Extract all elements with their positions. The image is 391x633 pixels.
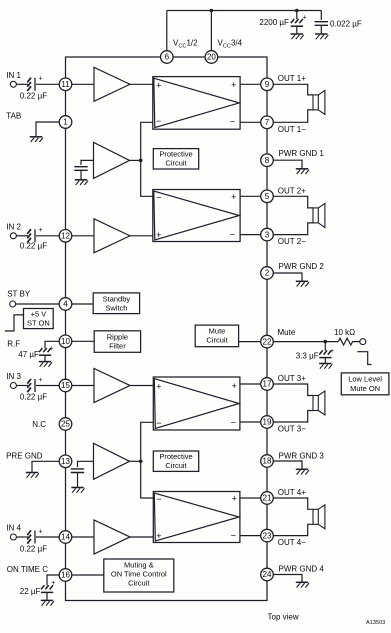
pin 8: [261, 154, 274, 167]
svg-text:25: 25: [61, 420, 70, 429]
capacitor 0.22 uF (IN 2 coupling): [20, 227, 47, 250]
pin 22: [261, 335, 274, 348]
pin 15: [59, 379, 72, 392]
svg-text:9: 9: [265, 80, 270, 89]
wire PA3 -out to pin 19: [240, 421, 261, 423]
wire IN3 terminal to coupling cap: [16, 385, 28, 387]
svg-text:+: +: [39, 227, 43, 234]
pin 5: [261, 190, 274, 203]
mute step waveform symbol: [357, 352, 371, 365]
wire pin 4 to standby switch: [72, 303, 93, 305]
capacitor 2200 uF (supply electrolytic): [259, 11, 306, 34]
svg-text:OUT 1+: OUT 1+: [278, 74, 306, 83]
node ST BY terminal: [10, 301, 16, 307]
wire PA1 +out to pin 9: [240, 83, 261, 85]
capacitor 0.22 uF (IN 4 coupling): [20, 528, 47, 553]
svg-text:PWR GND 4: PWR GND 4: [279, 565, 325, 574]
pin 7: [261, 116, 274, 129]
wire pin 8 to ground: [273, 160, 302, 168]
pin 6: [161, 51, 174, 64]
svg-text:20: 20: [207, 53, 216, 62]
ground (TAB): [30, 137, 43, 142]
svg-text:N.C: N.C: [32, 420, 46, 429]
wire A4 output to PA3 (+): [130, 385, 153, 387]
wire pin 13 to ground: [32, 461, 59, 472]
svg-text:1: 1: [63, 118, 68, 127]
wire pin 1 (TAB) to ground: [36, 122, 59, 137]
pin 18: [261, 455, 274, 468]
pin 16: [59, 569, 72, 582]
pin 20: [205, 51, 218, 64]
wire riser pin 20 to Vcc rail: [210, 11, 212, 51]
svg-text:Circuit: Circuit: [206, 335, 228, 344]
svg-text:22 µF: 22 µF: [20, 587, 41, 596]
pin 10: [59, 335, 72, 348]
svg-text:OUT 2+: OUT 2+: [278, 186, 306, 195]
svg-text:PRE GND: PRE GND: [6, 452, 43, 461]
wire coupling cap to pin 14: [36, 536, 59, 538]
svg-text:OUT 3+: OUT 3+: [278, 374, 306, 383]
wire A1 output to bridge PA1 (+): [130, 83, 153, 85]
svg-text:IN 4: IN 4: [6, 524, 21, 533]
wire pin 23 to speaker 4 bottom: [273, 524, 313, 535]
standby step waveform symbol: [5, 315, 24, 331]
svg-text:Top view: Top view: [268, 613, 299, 622]
ground (2200uF): [291, 34, 304, 39]
pin 1: [59, 116, 72, 129]
ground (PWR GND 1): [296, 169, 309, 174]
svg-text:OUT 4−: OUT 4−: [278, 538, 306, 547]
capacitor 22 uF (on-time): [20, 580, 56, 600]
ground (PWR GND 3): [296, 469, 309, 474]
pin 19: [261, 416, 274, 429]
pin 9: [261, 78, 274, 91]
svg-text:OUT 3−: OUT 3−: [278, 425, 306, 434]
svg-text:PWR GND 2: PWR GND 2: [279, 262, 325, 271]
wire pin 24 to ground: [273, 575, 302, 583]
svg-text:OUT 4+: OUT 4+: [278, 488, 306, 497]
wire pin 14 to A6: [72, 536, 94, 538]
svg-text:ON TIME C: ON TIME C: [7, 565, 48, 574]
svg-text:+: +: [39, 377, 43, 384]
node IN 1 input terminal: [10, 81, 16, 87]
svg-text:−: −: [156, 192, 161, 202]
ripple filter block: [94, 331, 140, 353]
svg-text:3.3 µF: 3.3 µF: [296, 352, 319, 361]
ground (A5 cap): [71, 488, 84, 493]
ground (3.3uF): [319, 364, 332, 369]
pin 11: [59, 78, 72, 91]
wire pin 10 to ripple filter cap: [45, 341, 59, 348]
svg-text:Mute: Mute: [209, 327, 226, 336]
wire A3 output to PA2 (+): [130, 235, 153, 237]
svg-text:+: +: [156, 80, 161, 90]
pin 21: [261, 492, 274, 505]
svg-text:Circuit: Circuit: [165, 461, 187, 470]
junction: A2 output on bus: [139, 159, 143, 163]
svg-text:Low Level: Low Level: [348, 375, 382, 384]
wire coupling cap to pin 11: [36, 83, 59, 85]
wire pin 11 to A1: [72, 83, 94, 85]
wire pin 21 to speaker 4 top: [273, 498, 313, 509]
wire pin 3 to speaker 2 bottom: [273, 223, 313, 235]
svg-text:2: 2: [265, 269, 270, 278]
node mute control terminal: [360, 339, 366, 345]
svg-text:22: 22: [263, 337, 272, 346]
op-amp A2 (half-supply driver ch1/2): [94, 142, 130, 178]
resistor 10 kOhm: [334, 328, 360, 345]
wire pin 16 to muting block: [72, 574, 104, 576]
wire IN2 terminal to coupling cap: [16, 235, 28, 237]
pin 3: [261, 228, 274, 241]
wire PA4 -out to pin 23: [240, 535, 261, 537]
svg-text:10: 10: [61, 337, 70, 346]
protective circuit block (ch3/4): [153, 451, 198, 471]
capacitor 0.22 uF (IN 1 coupling): [20, 76, 47, 101]
power amp bridge PA2 (channel 2): [153, 190, 240, 242]
svg-text:TAB: TAB: [6, 112, 21, 121]
svg-text:0.22 µF: 0.22 µF: [20, 92, 47, 101]
capacitor 3.3 uF (mute): [296, 342, 334, 364]
svg-text:ON Time Control: ON Time Control: [111, 569, 167, 578]
svg-text:0.22 µF: 0.22 µF: [20, 242, 47, 251]
wire pin 19 to speaker 3 bottom: [273, 411, 313, 423]
svg-text:47 µF: 47 µF: [18, 350, 39, 359]
svg-text:21: 21: [263, 494, 272, 503]
svg-text:18: 18: [263, 457, 272, 466]
pin 13: [59, 455, 72, 468]
svg-text:−: −: [231, 531, 236, 541]
svg-text:−: −: [156, 418, 161, 428]
svg-text:Filter: Filter: [109, 341, 126, 350]
wire bus: PA3/PA4 (-) input feed: [141, 422, 154, 498]
svg-text:10 kΩ: 10 kΩ: [334, 328, 355, 337]
svg-text:Ripple: Ripple: [107, 332, 128, 341]
ground (47uF): [39, 362, 52, 367]
wire riser pin 6 to Vcc rail: [166, 11, 168, 51]
svg-text:17: 17: [263, 380, 272, 389]
svg-text:+: +: [231, 192, 236, 202]
svg-text:16: 16: [61, 571, 70, 580]
wire pin 2 to ground: [273, 273, 302, 281]
svg-text:11: 11: [61, 80, 70, 89]
wire IN1 terminal to coupling cap: [16, 83, 28, 85]
ground (PWR GND 2): [296, 281, 309, 286]
svg-text:−: −: [230, 117, 235, 127]
power amp bridge PA3 (channel 3): [153, 377, 240, 430]
ground (PRE GND): [26, 473, 39, 478]
svg-text:6: 6: [165, 53, 170, 62]
pin 14: [59, 531, 72, 544]
speaker LS3 (OUT 3): [313, 391, 325, 415]
svg-text:0.22 µF: 0.22 µF: [20, 393, 47, 402]
wire PA2 +out to pin 5: [240, 195, 261, 197]
svg-text:OUT 2−: OUT 2−: [278, 237, 306, 246]
junction: pin 20 riser on Vcc rail: [210, 9, 214, 13]
svg-text:24: 24: [263, 570, 272, 579]
ground (PWR GND 4): [296, 582, 309, 587]
ground (A2 cap): [75, 180, 88, 185]
muting and ON time control block: [104, 559, 174, 592]
op-amp A6 input buffer ch4: [94, 520, 130, 554]
ground (22uF): [41, 600, 54, 605]
svg-text:23: 23: [263, 531, 272, 540]
capacitor 47 uF (ripple filter): [18, 346, 53, 362]
wire mute circuit to pin 22: [239, 341, 261, 343]
capacitor 0.022 uF (supply bypass): [315, 11, 362, 34]
pin 24: [261, 568, 274, 581]
svg-text:+: +: [156, 531, 161, 541]
svg-text:−: −: [156, 116, 161, 126]
svg-text:+: +: [232, 381, 237, 391]
op-amp A1 input buffer ch1: [94, 67, 130, 101]
svg-text:19: 19: [263, 418, 272, 427]
svg-text:Circuit: Circuit: [128, 578, 150, 587]
ground (0.022uF): [315, 34, 328, 39]
pin 4: [59, 298, 72, 311]
pin 23: [261, 529, 274, 542]
svg-text:7: 7: [265, 118, 270, 127]
svg-text:IN 2: IN 2: [6, 222, 21, 231]
wire pin 22 (Mute) to resistor: [273, 341, 338, 343]
junction: A5 output on bus: [139, 460, 143, 464]
svg-text:5: 5: [265, 192, 270, 201]
svg-text:−: −: [230, 229, 235, 239]
svg-text:0.22 µF: 0.22 µF: [20, 545, 47, 554]
pin 12: [59, 230, 72, 243]
wire IN4 terminal to coupling cap: [16, 536, 28, 538]
svg-text:+: +: [49, 346, 53, 353]
svg-text:−: −: [156, 494, 161, 504]
wire A6 output to PA4 (+): [130, 536, 153, 538]
svg-text:+: +: [51, 580, 55, 587]
capacitor (A5 reference bypass): [71, 461, 94, 487]
wire PA4 +out to pin 21: [240, 497, 261, 499]
wire coupling cap to pin 15: [36, 385, 59, 387]
svg-text:Mute ON: Mute ON: [350, 384, 380, 393]
svg-text:+: +: [39, 528, 43, 535]
op-amp A5 (half-supply driver ch3/4): [94, 443, 130, 479]
svg-text:Switch: Switch: [105, 303, 127, 312]
svg-text:PWR GND 1: PWR GND 1: [279, 149, 325, 158]
node Vcc supply rail: [167, 10, 321, 12]
svg-text:Muting &: Muting &: [124, 560, 154, 569]
wire PA3 +out to pin 17: [240, 383, 261, 385]
svg-text:−: −: [231, 417, 236, 427]
svg-text:A13503: A13503: [366, 620, 385, 626]
wire pin 17 to speaker 3 top: [273, 384, 313, 396]
svg-text:Protective: Protective: [159, 452, 192, 461]
wire A5 output to bus: [130, 460, 141, 462]
pin 17: [261, 378, 274, 391]
svg-text:R.F: R.F: [7, 339, 20, 348]
junction: 2200uF branch on Vcc rail: [295, 9, 299, 13]
svg-text:+: +: [39, 76, 43, 83]
wire A2 output to bus: [130, 159, 141, 161]
power amp bridge PA1 (channels 1): [153, 77, 240, 130]
node IN 3 input terminal: [10, 383, 16, 389]
wire PA1 -out to pin 7: [240, 121, 261, 123]
svg-text:+: +: [303, 15, 307, 22]
svg-text:0.022 µF: 0.022 µF: [330, 19, 362, 28]
low level mute annotation box: [341, 373, 389, 395]
svg-text:ST BY: ST BY: [7, 290, 31, 299]
capacitor (A2 reference bypass): [74, 160, 93, 179]
junction: mute cap branch: [324, 340, 328, 344]
wire pin 16 to timing cap: [47, 575, 59, 585]
svg-text:12: 12: [61, 232, 70, 241]
svg-text:+: +: [231, 80, 236, 90]
svg-text:Mute: Mute: [278, 328, 296, 337]
svg-text:8: 8: [265, 156, 270, 165]
wire coupling cap to pin 12: [36, 235, 59, 237]
speaker LS1 (OUT 1): [313, 90, 325, 114]
wire pin 18 to ground: [273, 461, 302, 469]
IC body outline (power amplifier package): [66, 57, 268, 601]
svg-text:PWR GND 3: PWR GND 3: [279, 452, 325, 461]
+5V ST ON annotation box: [24, 309, 54, 329]
svg-text:Standby: Standby: [103, 294, 131, 303]
svg-text:4: 4: [63, 300, 68, 309]
pin 2: [261, 267, 274, 280]
wire pin 5 to speaker 2 top: [273, 196, 313, 208]
wire pin 7 to speaker 1 bottom: [273, 110, 313, 122]
svg-text:Circuit: Circuit: [165, 158, 187, 167]
speaker LS4 (OUT 4): [313, 505, 325, 529]
svg-text:+5 V: +5 V: [31, 310, 47, 319]
op-amp A4 input buffer ch3: [94, 369, 130, 403]
protective circuit block (ch1/2): [153, 149, 198, 169]
svg-text:ST ON: ST ON: [27, 319, 50, 328]
svg-text:+: +: [156, 381, 161, 391]
svg-text:OUT 1−: OUT 1−: [278, 125, 306, 134]
wire pin 9 to speaker 1 top: [273, 84, 313, 95]
wire pin 15 to A4: [72, 385, 94, 387]
svg-text:13: 13: [61, 457, 70, 466]
wire PA2 -out to pin 3: [240, 234, 261, 236]
svg-text:+: +: [232, 494, 237, 504]
svg-text:IN 3: IN 3: [6, 372, 21, 381]
svg-text:Protective: Protective: [159, 150, 192, 159]
svg-text:3: 3: [265, 230, 270, 239]
svg-text:15: 15: [61, 381, 70, 390]
power amp bridge PA4 (channel 4): [153, 492, 240, 543]
pin 25: [59, 418, 72, 431]
mute circuit block: [195, 325, 238, 347]
svg-text:2200 µF: 2200 µF: [259, 18, 289, 27]
node IN 2 input terminal: [10, 233, 16, 239]
svg-text:+: +: [330, 348, 334, 355]
wire pin 10 to ripple filter: [72, 340, 94, 342]
standby switch block: [93, 293, 139, 314]
speaker LS2 (OUT 2): [313, 203, 325, 227]
op-amp A3 input buffer ch2: [94, 219, 130, 253]
svg-text:14: 14: [61, 533, 70, 542]
wire ST BY terminal to pin 4: [16, 303, 60, 305]
capacitor 0.22 uF (IN 3 coupling): [20, 377, 47, 402]
svg-text:IN 1: IN 1: [6, 71, 21, 80]
wire pin 12 to A3: [72, 235, 94, 237]
svg-text:+: +: [156, 230, 161, 240]
wire bus: PA1 (-) input feed: [141, 122, 153, 196]
node IN 4 input terminal: [10, 534, 16, 540]
